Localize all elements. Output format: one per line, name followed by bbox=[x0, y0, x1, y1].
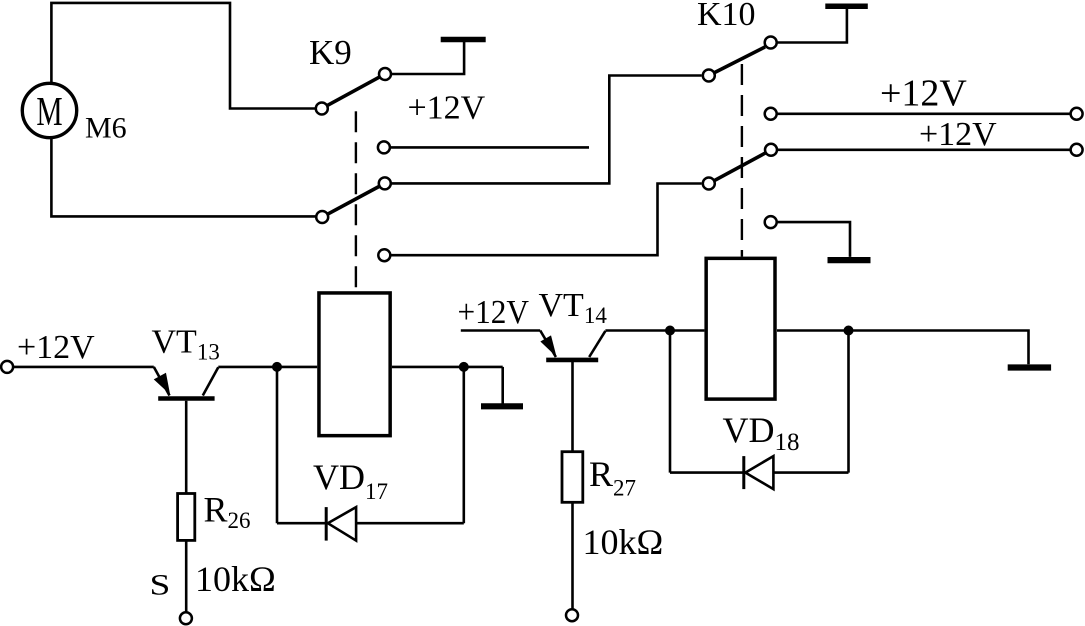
svg-text:10kΩ: 10kΩ bbox=[583, 522, 664, 562]
switch K10a pole contact bbox=[703, 70, 715, 82]
wire VD18 left leg bbox=[669, 331, 672, 473]
diode VD17 bbox=[326, 507, 356, 540]
relay coil K9 bbox=[319, 293, 390, 436]
svg-text:K10: K10 bbox=[697, 0, 756, 33]
switch K10b arm bbox=[715, 153, 766, 180]
node VT14 collector junction bbox=[665, 326, 675, 336]
switch K9b lower throw contact bbox=[378, 249, 390, 261]
wire relay K9 right pin bbox=[392, 366, 503, 369]
svg-text:+12V: +12V bbox=[408, 90, 486, 127]
svg-text:+12V: +12V bbox=[880, 73, 967, 115]
switch K10b lower throw contact bbox=[765, 216, 777, 228]
wire from K9a lower throw bbox=[390, 146, 589, 149]
ground (relay K9) bbox=[481, 403, 523, 409]
wire K9b lower throw to K10 pole 2 bbox=[391, 184, 702, 256]
resistor R27 bbox=[562, 452, 583, 503]
svg-text:+12V: +12V bbox=[458, 294, 530, 331]
switch K10b throw contact (+12V row 2) bbox=[765, 144, 777, 156]
wire +12V to VT13 emitter bbox=[13, 366, 154, 369]
wire K10b lower throw to ground bbox=[777, 222, 850, 257]
motor M6 bbox=[22, 83, 76, 137]
wire VT14 collector to relay K10 coil bbox=[605, 329, 704, 332]
wire motor bottom to K9 pole 2 bbox=[51, 139, 316, 216]
wire VT14 base to R27 bbox=[571, 362, 574, 452]
svg-text:10kΩ: 10kΩ bbox=[195, 559, 276, 599]
wire VD17 horizontal bbox=[277, 522, 464, 525]
terminal +12V (VT13 emitter) bbox=[1, 361, 13, 373]
ground (relay K10) bbox=[1008, 364, 1051, 370]
wire +12V row 1 bbox=[777, 113, 1071, 116]
wire +12V row 2 bbox=[777, 149, 1070, 152]
terminal +12V row 2 bbox=[1071, 144, 1083, 156]
wire to ground (relay K9) bbox=[501, 367, 504, 404]
diode VD18 bbox=[744, 456, 774, 489]
svg-text:+12V: +12V bbox=[17, 329, 95, 366]
node relay K9 right junction bbox=[459, 362, 469, 372]
wire VT13 collector to relay K9 coil bbox=[218, 366, 317, 369]
ground (K10a) bbox=[825, 4, 868, 10]
node VT13 collector junction bbox=[272, 362, 282, 372]
wire VD17 left leg bbox=[276, 367, 279, 523]
switch K10a throw contact (to ground) bbox=[765, 37, 777, 49]
transistor VT13 bbox=[154, 367, 219, 399]
wire VT13 base to R26 bbox=[185, 401, 188, 494]
wire VD17 right leg bbox=[462, 367, 465, 523]
svg-text:K9: K9 bbox=[309, 33, 352, 72]
wire R26 to terminal S bbox=[185, 540, 188, 612]
wire K9b throw to K10 pole 1 bbox=[391, 76, 702, 184]
svg-text:M6: M6 bbox=[85, 112, 127, 145]
switch K9a arm bbox=[328, 77, 380, 105]
ground (K10b) bbox=[828, 257, 871, 263]
wire R27 to terminal bbox=[571, 502, 574, 609]
svg-text:S: S bbox=[150, 569, 171, 602]
terminal (R27) bbox=[566, 609, 578, 621]
terminal +12V row 1 bbox=[1071, 108, 1083, 120]
wire K10a throw to ground bbox=[777, 9, 847, 43]
wire +12V to VT14 emitter bbox=[461, 329, 540, 332]
relay K10 dashed link bbox=[741, 64, 743, 257]
relay coil K10 bbox=[706, 258, 775, 399]
switch K10a arm bbox=[715, 47, 765, 73]
node relay K10 right junction bbox=[844, 326, 854, 336]
relay K9 dashed link bbox=[355, 111, 357, 291]
wire VD18 horizontal bbox=[670, 471, 849, 474]
resistor R26 bbox=[178, 494, 195, 541]
switch K10b pole contact bbox=[703, 178, 715, 190]
terminal S bbox=[180, 612, 192, 624]
ground (K9a) bbox=[441, 37, 486, 43]
switch K9a lower throw contact bbox=[378, 141, 390, 153]
wire K9a throw to ground bbox=[391, 42, 464, 74]
switch K9b pole contact bbox=[316, 211, 328, 223]
wire motor top to K9 pole 1 bbox=[51, 3, 315, 109]
switch K10a lower throw contact bbox=[765, 108, 777, 120]
switch K9b throw contact (to K10 pole 1) bbox=[379, 177, 391, 189]
svg-text:+12V: +12V bbox=[919, 116, 997, 153]
wire VD18 right leg bbox=[847, 331, 850, 473]
svg-text:M: M bbox=[36, 88, 62, 134]
switch K9a pole contact bbox=[316, 103, 328, 115]
wire relay K10 right pin to ground bbox=[777, 331, 1029, 365]
switch K9b arm bbox=[328, 187, 379, 214]
transistor VT14 bbox=[540, 331, 605, 360]
switch K9a throw contact (to ground) bbox=[379, 68, 391, 80]
